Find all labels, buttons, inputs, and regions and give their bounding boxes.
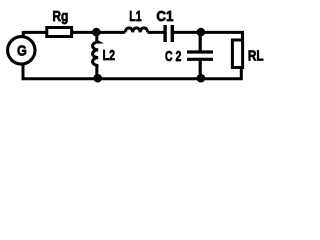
inductor L2 [93, 32, 99, 78]
svg-text:C1: C1 [156, 8, 173, 25]
capacitor C1 [165, 25, 172, 42]
generator G (circle source) [8, 37, 35, 64]
wire: C1 to top-right corner, down into RL [172, 32, 242, 41]
resistor RL [232, 40, 242, 68]
svg-text:G: G [17, 42, 27, 59]
node: junction bottom of L2 [93, 74, 102, 83]
node: junction top of C2 [197, 28, 206, 37]
svg-text:L2: L2 [103, 47, 115, 64]
svg-text:RL: RL [248, 47, 264, 64]
svg-text:C 2: C 2 [165, 48, 181, 65]
svg-text:L1: L1 [129, 8, 141, 25]
wire: bottom rail from generator to RL [23, 64, 241, 79]
wire: L1 to C1 [148, 31, 165, 34]
wire: generator top riser to top rail [23, 32, 47, 37]
svg-text:Rg: Rg [52, 8, 68, 25]
resistor Rg [47, 28, 72, 37]
inductor L1 [125, 28, 148, 33]
capacitor C2 [187, 32, 213, 78]
wire: Rg to L1 through node [72, 31, 126, 34]
node: junction top of L2 [92, 28, 101, 37]
node: junction bottom of C2 [197, 74, 206, 83]
